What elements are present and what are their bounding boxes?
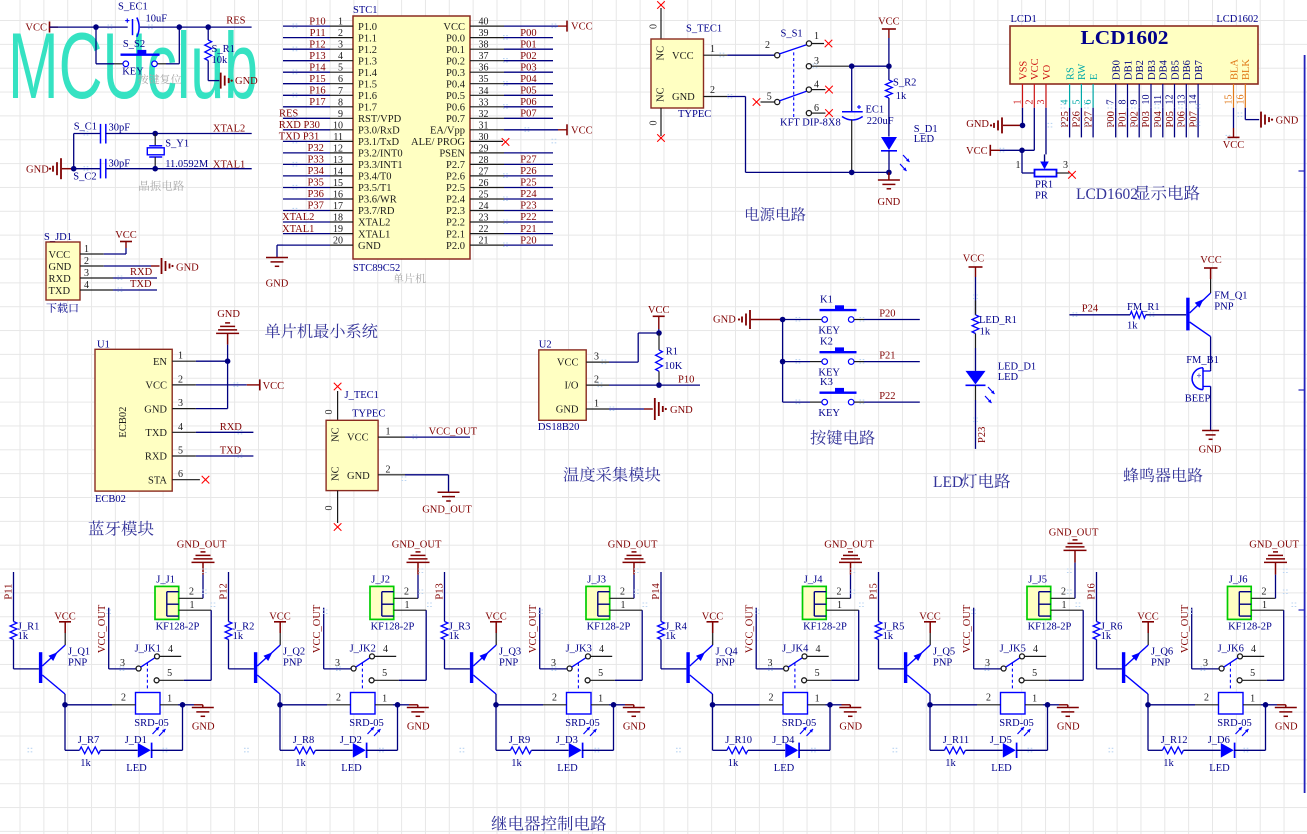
svg-text:P0.3: P0.3 bbox=[446, 68, 465, 79]
svg-text:VCC: VCC bbox=[54, 611, 76, 622]
svg-text:1: 1 bbox=[1032, 693, 1037, 704]
node junction bbox=[886, 170, 892, 176]
svg-text:GND_OUT: GND_OUT bbox=[1249, 540, 1299, 551]
mcu pin 15 P3.5/T1 bbox=[283, 178, 392, 195]
lcd pin 3 VO bbox=[1036, 64, 1053, 154]
svg-text:NC: NC bbox=[331, 427, 342, 442]
ground (relay 4) bbox=[839, 705, 862, 733]
title LCD1602显示电路 bbox=[1076, 186, 1138, 203]
svg-text:VCC_OUT: VCC_OUT bbox=[97, 604, 108, 653]
svg-text:P11: P11 bbox=[3, 584, 14, 600]
ground (keys) bbox=[713, 310, 783, 329]
led J_D2 bbox=[340, 705, 398, 774]
transistor J_Q2 PNP bbox=[254, 645, 305, 705]
svg-text:20: 20 bbox=[333, 236, 343, 247]
svg-text:4: 4 bbox=[84, 280, 89, 291]
node junction bbox=[493, 702, 499, 708]
svg-text:2: 2 bbox=[594, 375, 599, 386]
svg-text:5: 5 bbox=[178, 446, 183, 457]
wire bbox=[638, 333, 659, 362]
svg-text:0: 0 bbox=[649, 121, 660, 126]
svg-text:PR1: PR1 bbox=[1035, 179, 1053, 190]
svg-text:2: 2 bbox=[338, 28, 343, 39]
svg-text:P23: P23 bbox=[520, 201, 536, 212]
lcd pin 10 DB3 bbox=[1141, 60, 1158, 137]
pin 1 bbox=[378, 427, 470, 438]
svg-text:GND: GND bbox=[49, 262, 72, 273]
svg-text:2: 2 bbox=[386, 464, 391, 475]
svg-text:J_JK5: J_JK5 bbox=[1000, 643, 1026, 654]
net label RES bbox=[226, 15, 245, 26]
mcu pin 12 P3.2/INT0 bbox=[283, 143, 403, 160]
svg-text:11: 11 bbox=[333, 132, 343, 143]
svg-text:RES: RES bbox=[226, 15, 245, 26]
svg-text:GND: GND bbox=[672, 92, 695, 103]
svg-text:GND: GND bbox=[217, 309, 240, 320]
resistor J_R5 1k bbox=[875, 621, 904, 669]
resistor FM_R1 1k bbox=[1127, 302, 1186, 332]
relay coil J_JK1 SRD-05 bbox=[65, 693, 203, 729]
mcu pin 34 P0.5 bbox=[446, 86, 553, 103]
power port VCC (ds18b20) bbox=[648, 305, 670, 333]
net label P20 bbox=[879, 308, 895, 319]
svg-text:VCC: VCC bbox=[347, 433, 369, 444]
pin 3 bbox=[80, 268, 157, 279]
label 单片机 bbox=[393, 273, 425, 283]
svg-text:P2.7: P2.7 bbox=[446, 160, 465, 171]
svg-text:3: 3 bbox=[594, 352, 599, 363]
led J_D5 bbox=[990, 705, 1048, 774]
net label P10 (ds18b20) bbox=[678, 375, 694, 386]
svg-text:KEY: KEY bbox=[122, 66, 144, 77]
svg-text:LCD1602: LCD1602 bbox=[1216, 14, 1258, 25]
resistor R1 10K bbox=[656, 333, 683, 385]
wire bbox=[975, 385, 977, 449]
svg-text:P1.1: P1.1 bbox=[358, 33, 377, 44]
resistor J_R6 1k bbox=[1093, 621, 1122, 669]
svg-text:SRD-05: SRD-05 bbox=[782, 718, 816, 729]
capacitor S_C2 30pF bbox=[73, 159, 130, 183]
svg-text:P12: P12 bbox=[218, 583, 229, 599]
svg-text:XTAL1: XTAL1 bbox=[358, 229, 390, 240]
ground (lcd left) bbox=[966, 117, 1022, 133]
svg-text:2: 2 bbox=[552, 693, 557, 704]
svg-text:J_R10: J_R10 bbox=[725, 735, 752, 746]
node junction bbox=[180, 702, 186, 708]
svg-text:2: 2 bbox=[620, 586, 625, 597]
svg-text:P2.1: P2.1 bbox=[446, 229, 465, 240]
module pin 5 RXD bbox=[145, 446, 254, 463]
title 温度采集模块 bbox=[564, 467, 661, 482]
terminal J_J6 KF128-2P bbox=[1228, 575, 1273, 633]
svg-text:14: 14 bbox=[1188, 95, 1199, 105]
svg-text:NC: NC bbox=[331, 466, 342, 481]
net label VCC_OUT (relay 3) bbox=[528, 604, 568, 669]
resistor J_R2 1k bbox=[225, 621, 254, 669]
svg-text:DB4: DB4 bbox=[1159, 59, 1170, 80]
svg-text:14: 14 bbox=[333, 166, 343, 177]
svg-text:J_Q1: J_Q1 bbox=[68, 647, 90, 658]
svg-text:30pF: 30pF bbox=[109, 159, 131, 170]
node junction bbox=[1019, 148, 1025, 154]
net label P13 bbox=[434, 572, 445, 622]
svg-text:K1: K1 bbox=[820, 294, 833, 305]
terminal pin 2 bbox=[1251, 586, 1275, 598]
svg-text:PNP: PNP bbox=[1151, 658, 1170, 669]
svg-text:1: 1 bbox=[594, 398, 599, 409]
svg-text:DB5: DB5 bbox=[1170, 60, 1181, 80]
svg-text:1k: 1k bbox=[883, 631, 894, 642]
svg-text:KF128-2P: KF128-2P bbox=[371, 622, 415, 633]
lcd pin 14 DB7 bbox=[1188, 60, 1205, 137]
svg-text:P32: P32 bbox=[308, 143, 324, 154]
net label RXD bbox=[130, 267, 153, 278]
svg-text:SRD-05: SRD-05 bbox=[999, 718, 1033, 729]
wire bbox=[849, 66, 889, 112]
svg-text:VCC: VCC bbox=[672, 51, 694, 62]
mcu U=STC1 STC89C52 body bbox=[353, 5, 470, 274]
svg-text:P0.2: P0.2 bbox=[446, 56, 465, 67]
svg-text:TXD: TXD bbox=[49, 286, 71, 297]
svg-text:1k: 1k bbox=[80, 758, 91, 769]
svg-text:J_D5: J_D5 bbox=[990, 735, 1012, 746]
svg-text:VCC: VCC bbox=[269, 611, 291, 622]
mcu pin 28 P2.7 bbox=[446, 155, 553, 172]
svg-text:10: 10 bbox=[333, 120, 343, 131]
net label P11 bbox=[3, 572, 14, 622]
svg-text:1: 1 bbox=[386, 427, 391, 438]
mcu pin 23 P2.2 bbox=[446, 212, 553, 229]
mcu pin 4 P1.3 bbox=[283, 51, 377, 68]
node junction bbox=[152, 131, 158, 137]
title 继电器控制电路 bbox=[492, 816, 606, 831]
capacitor S_C1 30pF bbox=[74, 122, 131, 144]
net label P23 bbox=[977, 427, 988, 443]
svg-text:P21: P21 bbox=[520, 224, 536, 235]
lcd LCD1 LCD1602 body bbox=[1010, 14, 1258, 84]
svg-text:4: 4 bbox=[338, 51, 343, 62]
module pin 1 EN bbox=[153, 351, 228, 368]
resistor J_R7 1k bbox=[78, 735, 138, 769]
svg-text:VCC: VCC bbox=[648, 305, 670, 316]
svg-text:GND: GND bbox=[556, 405, 579, 416]
mcu pin 3 P1.2 bbox=[283, 39, 377, 56]
net label P16 bbox=[1086, 572, 1097, 622]
svg-text:RXD: RXD bbox=[220, 422, 243, 433]
wire bbox=[1082, 610, 1084, 680]
svg-text:1: 1 bbox=[837, 600, 842, 611]
svg-text:P12: P12 bbox=[309, 39, 325, 50]
svg-text:P1.7: P1.7 bbox=[358, 103, 377, 114]
key switch K3 bbox=[783, 377, 920, 419]
svg-text:4: 4 bbox=[1060, 100, 1071, 105]
svg-text:4: 4 bbox=[383, 644, 388, 655]
svg-text:RS: RS bbox=[1065, 67, 1076, 80]
relay switch J_JK6 bbox=[1203, 643, 1284, 691]
terminal J_J1 KF128-2P bbox=[155, 575, 200, 633]
svg-text:K2: K2 bbox=[820, 336, 833, 347]
title 蜂鸣器电路 bbox=[1124, 468, 1203, 483]
svg-text:P1.5: P1.5 bbox=[358, 79, 377, 90]
svg-text:PNP: PNP bbox=[933, 658, 952, 669]
svg-text:KF128-2P: KF128-2P bbox=[156, 622, 200, 633]
node junction bbox=[927, 702, 933, 708]
svg-text:J_J4: J_J4 bbox=[804, 575, 823, 586]
svg-text:KF128-2P: KF128-2P bbox=[1028, 622, 1072, 633]
svg-text:5: 5 bbox=[1032, 668, 1037, 679]
no-connect x marks (S_S1) bbox=[753, 40, 833, 117]
resistor J_R8 1k bbox=[293, 735, 353, 769]
mcu pin 39 P0.0 bbox=[446, 28, 553, 45]
svg-text:J_Q5: J_Q5 bbox=[933, 647, 955, 658]
svg-text:11: 11 bbox=[1153, 95, 1164, 105]
svg-text:PNP: PNP bbox=[1214, 302, 1233, 313]
svg-text:8: 8 bbox=[338, 97, 343, 108]
svg-text:SRD-05: SRD-05 bbox=[1217, 718, 1251, 729]
svg-text:P15: P15 bbox=[309, 74, 325, 85]
svg-text:1: 1 bbox=[84, 244, 89, 255]
svg-text:4: 4 bbox=[178, 422, 183, 433]
svg-text:P0.5: P0.5 bbox=[446, 91, 465, 102]
svg-text:P3.0/RxD: P3.0/RxD bbox=[358, 126, 400, 137]
svg-text:1: 1 bbox=[815, 693, 820, 704]
buzzer FM_B1 BEEP bbox=[1185, 355, 1219, 431]
mcu pin 16 P3.6/WR bbox=[283, 189, 397, 206]
wire bbox=[157, 27, 179, 64]
svg-text:P1.6: P1.6 bbox=[358, 91, 377, 102]
svg-text:2: 2 bbox=[1061, 586, 1066, 597]
svg-text:RST/VPD: RST/VPD bbox=[358, 114, 402, 125]
svg-text:J_R9: J_R9 bbox=[509, 735, 531, 746]
svg-text:1: 1 bbox=[621, 600, 626, 611]
svg-text:J_Q2: J_Q2 bbox=[283, 647, 305, 658]
transistor J_Q4 PNP bbox=[686, 645, 738, 705]
svg-text:1k: 1k bbox=[18, 631, 29, 642]
svg-text:STC89C52: STC89C52 bbox=[353, 263, 400, 274]
svg-text:GND: GND bbox=[713, 314, 736, 325]
svg-text:J_D4: J_D4 bbox=[772, 735, 795, 746]
mcu pin 20 GND bbox=[283, 236, 381, 252]
svg-text:DB1: DB1 bbox=[1123, 60, 1134, 80]
svg-text:GND: GND bbox=[266, 279, 289, 290]
node junction bbox=[71, 166, 77, 172]
svg-text:P0.6: P0.6 bbox=[446, 103, 465, 114]
svg-text:2: 2 bbox=[1262, 586, 1267, 597]
svg-text:K3: K3 bbox=[820, 377, 833, 388]
svg-text:P34: P34 bbox=[308, 166, 325, 177]
svg-text:S_R2: S_R2 bbox=[893, 78, 916, 89]
svg-text:J_JK6: J_JK6 bbox=[1218, 643, 1244, 654]
power port GND_OUT (relay 4) bbox=[824, 540, 874, 599]
svg-text:TYPEC: TYPEC bbox=[678, 109, 711, 120]
svg-text:XTAL2: XTAL2 bbox=[358, 218, 390, 229]
sheet border right bbox=[1299, 55, 1305, 793]
svg-text:DB3: DB3 bbox=[1147, 60, 1158, 80]
node junction bbox=[849, 170, 855, 176]
relay coil J_JK4 SRD-05 bbox=[713, 693, 851, 729]
svg-text:J_Q4: J_Q4 bbox=[716, 647, 739, 658]
svg-text:NC: NC bbox=[656, 87, 667, 102]
svg-text:10k: 10k bbox=[212, 55, 229, 66]
svg-text:P1.4: P1.4 bbox=[358, 68, 378, 79]
capacitor S_EC1 10uF bbox=[118, 2, 167, 37]
node junction bbox=[93, 24, 99, 30]
wire bbox=[496, 705, 510, 751]
svg-text:VCC: VCC bbox=[966, 146, 988, 157]
svg-text:GND: GND bbox=[358, 241, 381, 252]
svg-text:VCC: VCC bbox=[145, 381, 167, 392]
svg-text:1: 1 bbox=[1016, 160, 1021, 171]
svg-text:19: 19 bbox=[333, 224, 343, 235]
net label VCC_OUT (relay 1) bbox=[97, 604, 137, 669]
svg-text:GND_OUT: GND_OUT bbox=[392, 540, 442, 551]
svg-text:VO: VO bbox=[1042, 64, 1053, 80]
svg-text:1: 1 bbox=[338, 17, 343, 28]
svg-text:2: 2 bbox=[710, 85, 715, 96]
svg-text:1: 1 bbox=[1062, 600, 1067, 611]
svg-text:S_S1: S_S1 bbox=[781, 29, 803, 40]
title 按键电路 bbox=[811, 430, 875, 445]
wire (J_TEC1 bottom stub) bbox=[324, 491, 341, 531]
svg-text:S_Y1: S_Y1 bbox=[165, 139, 189, 150]
pin 3 bbox=[586, 352, 638, 363]
svg-text:P05: P05 bbox=[520, 86, 536, 97]
svg-text:FM_B1: FM_B1 bbox=[1186, 355, 1219, 366]
svg-text:P2.6: P2.6 bbox=[446, 172, 465, 183]
terminal J_J2 KF128-2P bbox=[370, 575, 415, 633]
node junction bbox=[849, 63, 855, 69]
logo MCUclub bbox=[8, 13, 258, 118]
svg-text:P33: P33 bbox=[308, 155, 324, 166]
svg-text:VCC: VCC bbox=[557, 358, 579, 369]
svg-text:9: 9 bbox=[1129, 100, 1140, 105]
svg-text:TXD: TXD bbox=[220, 446, 242, 457]
mcu pin 32 P0.7 bbox=[446, 109, 553, 126]
mcu pin 7 P1.6 bbox=[283, 86, 377, 103]
node junction bbox=[780, 359, 786, 365]
svg-text:1: 1 bbox=[167, 693, 172, 704]
svg-text:GND: GND bbox=[839, 722, 862, 733]
svg-text:VCC: VCC bbox=[49, 250, 71, 261]
svg-text:4: 4 bbox=[599, 644, 604, 655]
svg-text:VCC: VCC bbox=[1223, 140, 1245, 151]
power port VCC (power circuit) bbox=[878, 17, 900, 81]
svg-text:RXD: RXD bbox=[130, 267, 153, 278]
svg-text:P10: P10 bbox=[309, 16, 325, 27]
mcu pin 36 P0.3 bbox=[446, 62, 553, 79]
mcu pin 30 ALE/ PROG bbox=[411, 132, 509, 148]
module U1 ECB02 body bbox=[95, 340, 172, 506]
mcu pin 21 P2.0 bbox=[446, 235, 553, 252]
svg-text:GND: GND bbox=[407, 722, 430, 733]
svg-text:1: 1 bbox=[405, 600, 410, 611]
svg-text:P17: P17 bbox=[309, 97, 325, 108]
svg-text:2: 2 bbox=[336, 693, 341, 704]
svg-text:P35: P35 bbox=[308, 178, 324, 189]
svg-text:VCC: VCC bbox=[963, 254, 985, 265]
svg-text:RW: RW bbox=[1077, 64, 1088, 80]
power port VCC (relay 2) bbox=[269, 611, 291, 645]
svg-text:VCC: VCC bbox=[1200, 255, 1222, 266]
svg-text:J_D6: J_D6 bbox=[1208, 735, 1230, 746]
svg-text:1: 1 bbox=[1262, 600, 1267, 611]
svg-text:J_Q6: J_Q6 bbox=[1151, 647, 1173, 658]
ground (relay 3) bbox=[623, 705, 646, 733]
wire (S_TEC1 top stub) bbox=[649, 1, 665, 39]
svg-text:KF128-2P: KF128-2P bbox=[1228, 622, 1272, 633]
ground (buzzer) bbox=[1199, 431, 1222, 456]
svg-text:1k: 1k bbox=[1101, 631, 1112, 642]
relay switch J_JK2 bbox=[335, 643, 426, 691]
svg-text:6: 6 bbox=[1083, 100, 1094, 105]
svg-text:1k: 1k bbox=[728, 758, 739, 769]
key switch S_S2 bbox=[121, 39, 160, 77]
svg-text:6: 6 bbox=[178, 469, 183, 480]
resistor S_R1 10k bbox=[205, 27, 235, 81]
svg-text:DB2: DB2 bbox=[1135, 60, 1146, 80]
svg-text:P36: P36 bbox=[308, 189, 324, 200]
svg-text:VCC: VCC bbox=[878, 17, 900, 28]
node junction bbox=[1020, 123, 1026, 129]
net label VCC_OUT bbox=[429, 427, 478, 438]
svg-text:RES: RES bbox=[279, 109, 298, 120]
svg-text:BLK: BLK bbox=[1241, 59, 1252, 80]
svg-text:U2: U2 bbox=[539, 340, 552, 351]
power port GND_OUT (relay 5) bbox=[1049, 528, 1099, 599]
svg-text:2: 2 bbox=[1024, 100, 1035, 105]
mcu pin 35 P0.4 bbox=[446, 74, 553, 91]
power port VCC (led) bbox=[963, 254, 985, 315]
lcd pin 11 DB4 bbox=[1153, 59, 1170, 137]
ground (ds18b20) bbox=[644, 398, 693, 420]
mcu pin 11 P3.1/TxD bbox=[279, 132, 400, 149]
svg-text:P20: P20 bbox=[879, 308, 895, 319]
relay switch J_JK5 bbox=[985, 643, 1083, 691]
svg-text:P0.4: P0.4 bbox=[446, 79, 466, 90]
node junction bbox=[611, 702, 617, 708]
node junction bbox=[62, 702, 68, 708]
terminal pin 1 bbox=[1251, 600, 1284, 611]
svg-text:P05: P05 bbox=[1165, 111, 1176, 127]
svg-text:VCC: VCC bbox=[571, 125, 593, 136]
svg-text:4: 4 bbox=[168, 644, 173, 655]
node junction bbox=[1263, 702, 1269, 708]
svg-text:P02: P02 bbox=[520, 51, 536, 62]
net label VCC_OUT (relay 4) bbox=[744, 604, 784, 669]
lcd pin 5 RW bbox=[1071, 64, 1088, 138]
key switch K2 bbox=[783, 336, 920, 378]
svg-text:P0.0: P0.0 bbox=[446, 33, 465, 44]
svg-text:J_R8: J_R8 bbox=[293, 735, 315, 746]
svg-text:P01: P01 bbox=[520, 39, 536, 50]
svg-text:3: 3 bbox=[814, 56, 819, 67]
ground (relay 2) bbox=[407, 705, 430, 733]
svg-text:XTAL2: XTAL2 bbox=[282, 212, 314, 223]
svg-text:1k: 1k bbox=[1127, 321, 1138, 332]
svg-text:KFT DIP-8X8: KFT DIP-8X8 bbox=[780, 118, 841, 129]
power port VCC (bluetooth) bbox=[247, 379, 284, 392]
svg-text:10uF: 10uF bbox=[146, 13, 168, 24]
svg-text:EC1: EC1 bbox=[866, 105, 885, 116]
mcu pin 31 EA/Vpp bbox=[430, 120, 593, 136]
svg-text:DB0: DB0 bbox=[1112, 60, 1123, 80]
svg-text:XTAL2: XTAL2 bbox=[213, 124, 245, 135]
svg-text:P2.3: P2.3 bbox=[446, 206, 465, 217]
svg-text:P04: P04 bbox=[1153, 110, 1164, 127]
capacitor EC1 220uF bbox=[842, 105, 894, 173]
net label P15 bbox=[868, 572, 879, 622]
lcd pin 7 DB0 bbox=[1106, 60, 1123, 137]
